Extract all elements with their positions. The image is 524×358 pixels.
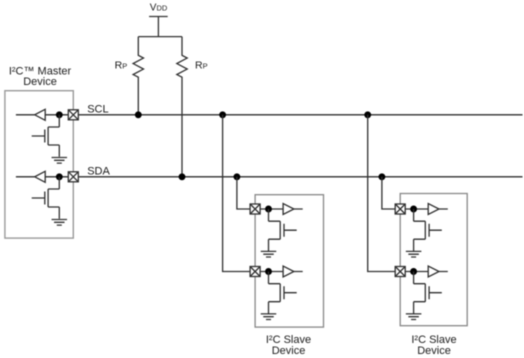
- node slave2 SDA: [410, 206, 417, 213]
- wire SCL to slave2: [368, 115, 396, 272]
- transistor master SDA driver: [32, 177, 60, 219]
- ground slave2 SCL: [406, 314, 422, 320]
- wire SDA to slave1: [237, 177, 250, 209]
- buffer master SCL input: [35, 109, 46, 120]
- svg-text:RP: RP: [115, 60, 128, 72]
- node slave1 SCL: [265, 268, 272, 275]
- pin pad master SCL: [68, 110, 78, 120]
- svg-text:VDD: VDD: [150, 3, 168, 14]
- wire slave2 SDA internal: [405, 208, 448, 210]
- junction: slave1 SDA tap: [233, 173, 240, 180]
- svg-text:SDA: SDA: [87, 166, 110, 178]
- resistor RP (left pull-up, SCL): [133, 37, 143, 115]
- resistor RP (right pull-up, SDA): [177, 37, 187, 177]
- junction: slave2 SDA tap: [378, 173, 385, 180]
- I2C slave device 2 box: [400, 194, 467, 326]
- ground slave1 SDA: [261, 251, 277, 257]
- svg-text:Device: Device: [23, 76, 57, 88]
- wire VDD stem: [157, 17, 159, 37]
- wire slave1 SDA internal: [260, 208, 303, 210]
- wire SCL bus: [78, 114, 522, 116]
- svg-text:RP: RP: [195, 60, 208, 72]
- transistor slave2 SCL driver: [414, 272, 442, 314]
- buffer slave1 SDA input: [283, 204, 294, 215]
- ground master SCL: [52, 158, 68, 164]
- svg-text:SCL: SCL: [87, 104, 108, 116]
- wire SDA to slave2: [382, 177, 395, 209]
- pin pad slave2 SCL: [395, 267, 405, 277]
- VDD supply bar: [149, 16, 168, 18]
- transistor master SCL driver: [32, 115, 60, 157]
- junction: right RP to SDA: [179, 173, 186, 180]
- junction: slave2 SCL tap: [364, 111, 371, 118]
- transistor slave2 SDA driver: [414, 209, 442, 251]
- I2C master device box: [5, 91, 73, 238]
- transistor slave1 SCL driver: [269, 272, 297, 314]
- junction: left RP to SCL: [135, 111, 142, 118]
- transistor slave1 SDA driver: [269, 209, 297, 251]
- pin pad slave2 SDA: [395, 204, 405, 214]
- node slave1 SDA: [265, 206, 272, 213]
- wire slave1 SCL internal: [260, 271, 303, 273]
- ground master SDA: [52, 220, 68, 226]
- buffer slave2 SDA input: [428, 204, 439, 215]
- node master SCL: [56, 111, 63, 118]
- wire master SCL internal: [16, 114, 68, 116]
- wire slave2 SCL internal: [405, 271, 448, 273]
- buffer slave2 SCL input: [428, 266, 439, 277]
- svg-text:Device: Device: [417, 345, 451, 357]
- wire master SDA internal: [16, 176, 68, 178]
- node slave2 SCL: [410, 268, 417, 275]
- I2C slave device 1 box: [255, 195, 323, 327]
- buffer slave1 SCL input: [283, 266, 294, 277]
- pin pad slave1 SCL: [250, 267, 260, 277]
- svg-text:Device: Device: [272, 345, 306, 357]
- ground slave2 SDA: [406, 251, 422, 257]
- node master SDA: [56, 173, 63, 180]
- buffer master SDA input: [35, 171, 46, 182]
- pin pad slave1 SDA: [250, 204, 260, 214]
- junction: slave1 SCL tap: [219, 111, 226, 118]
- wire SCL to slave1: [223, 115, 251, 272]
- wire VDD rail: [138, 36, 182, 38]
- wire SDA bus: [78, 176, 522, 178]
- pin pad master SDA: [68, 172, 78, 182]
- ground slave1 SCL: [261, 314, 277, 320]
